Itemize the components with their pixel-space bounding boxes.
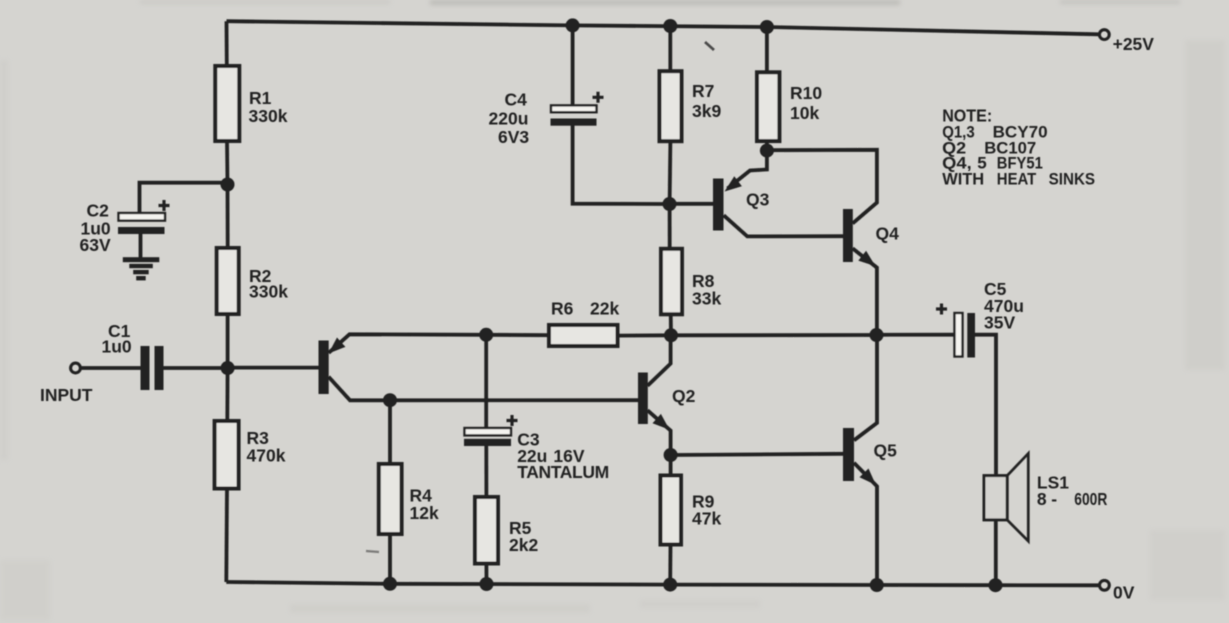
wire R2 to input node [226, 313, 230, 368]
junction node input [221, 361, 235, 375]
junction node R1/R2/C2 [221, 178, 235, 192]
wire Q2 collector [648, 335, 671, 386]
C4 plus sign [593, 92, 604, 103]
terminal 0V [1100, 580, 1110, 590]
wire Q4 collector [767, 150, 877, 224]
svg-text:C2: C2 [87, 201, 110, 221]
wire R7 bottom [668, 140, 673, 204]
capacitor C1 left plate [141, 346, 150, 390]
wire Q1 collector to Q2 base [329, 377, 638, 401]
wire output node to C5 [877, 333, 956, 337]
svg-text:1u0: 1u0 [102, 337, 132, 357]
junction node output [870, 328, 884, 342]
Q1 emitter arrow [329, 338, 346, 354]
wire node to R6 [486, 333, 550, 337]
wire node to output node [671, 333, 877, 337]
Q5 emitter arrow [860, 469, 876, 486]
capacitor C5 negative plate [967, 313, 975, 358]
wire R4 top [388, 400, 392, 465]
junction dot C4 top rail [566, 18, 580, 32]
junction dot R10 top rail [760, 20, 774, 34]
capacitor C4 positive plate [551, 105, 597, 112]
svg-text:47k: 47k [692, 509, 721, 529]
wire R5 bottom [484, 563, 488, 585]
ground [123, 257, 160, 280]
resistor R6 [549, 325, 618, 346]
C5 plus sign [936, 304, 947, 315]
wire R9 bottom [668, 544, 672, 585]
C2 plus sign [159, 200, 170, 211]
junction node R7/C4/R8/Q3 base [663, 197, 677, 211]
wire top rail +25V [227, 21, 1099, 34]
resistor R8 [661, 249, 682, 314]
junction dot R5 rail [480, 577, 494, 591]
svg-text:R7: R7 [692, 81, 714, 101]
wire Q1 base [228, 366, 319, 370]
wire Q3 collector to Q4 base [724, 215, 843, 236]
wire R1 bottom to node [225, 140, 229, 185]
svg-text:0V: 0V [1113, 583, 1135, 603]
capacitor C2 negative plate [118, 227, 165, 234]
wire R9 top [669, 455, 673, 476]
resistor R9 [661, 476, 682, 545]
svg-text:+25V: +25V [1113, 34, 1155, 54]
capacitor C3 positive plate [465, 428, 512, 435]
resistor R2 [217, 248, 239, 314]
junction node R4 top [383, 393, 397, 407]
transistor Q2 bar [638, 373, 648, 425]
wire speaker to rail [994, 519, 998, 585]
transistor Q4 bar [843, 209, 853, 262]
wire R4 bottom [388, 533, 392, 584]
terminal INPUT [71, 363, 81, 373]
capacitor C1 right plate [155, 346, 164, 390]
junction node R10 / Q3 emitter / Q4 collector [760, 144, 774, 158]
resistor R3 [215, 421, 239, 489]
junction dot R7 top rail [663, 19, 677, 33]
resistor R10 [757, 72, 779, 141]
wire C5 to speaker [975, 335, 996, 476]
svg-text:470k: 470k [247, 446, 286, 466]
svg-text:Q4: Q4 [876, 224, 900, 244]
resistor R1 [215, 66, 239, 141]
wire Q5 emitter [854, 463, 877, 585]
svg-text:33k: 33k [692, 289, 721, 309]
transistor Q5 bar [843, 428, 854, 481]
wire R8 bottom [669, 313, 673, 335]
wire R10 bottom [765, 140, 769, 151]
svg-text:3k9: 3k9 [692, 101, 721, 121]
wire R8 top [668, 204, 672, 250]
wire C2 branch [140, 183, 228, 214]
transistor Q1 bar [319, 341, 329, 395]
svg-text:TANTALUM: TANTALUM [517, 462, 609, 482]
junction dot R4 rail [383, 577, 397, 591]
svg-text:WITHHEATSINKS: WITHHEATSINKS [942, 170, 1095, 189]
Q2 emitter arrow [653, 414, 670, 430]
svg-text:R10: R10 [790, 83, 822, 103]
capacitor C3 negative plate [464, 439, 511, 446]
svg-text:R1: R1 [249, 88, 272, 108]
junction dot Q5 emitter rail [870, 578, 884, 592]
junction node C3 top [479, 328, 493, 342]
junction dot R9 rail [663, 578, 677, 592]
wire Q1 emitter to node [329, 334, 487, 353]
wire R7 top [668, 26, 672, 72]
wire C4 bottom to node [573, 126, 670, 205]
svg-text:22k: 22k [590, 299, 619, 319]
wire C4 top [571, 25, 575, 105]
svg-text:Q3: Q3 [746, 190, 770, 210]
svg-text:INPUT: INPUT [40, 385, 93, 405]
Q3 emitter arrow [725, 176, 742, 191]
svg-text:C4: C4 [505, 90, 528, 110]
svg-text:6V3: 6V3 [498, 127, 529, 147]
junction node Q2 emitter / R9 / Q5 base [664, 448, 678, 462]
svg-text:10k: 10k [790, 103, 819, 123]
speaker LS1 horn [1007, 454, 1028, 542]
wire C1 to input node [164, 366, 228, 370]
wire input node to R3 [225, 368, 229, 422]
stray mark near R7 [705, 42, 714, 50]
junction dot speaker rail [989, 578, 1003, 592]
capacitor C2 positive plate [119, 213, 166, 221]
wire R1 top [225, 21, 229, 67]
wire node to R2 [226, 185, 230, 250]
Q4 emitter arrow [858, 251, 875, 266]
wire Q2 emitter [648, 410, 671, 455]
svg-text:Q2: Q2 [672, 386, 696, 406]
svg-text:Q5: Q5 [874, 441, 898, 461]
wire R10 top [765, 27, 769, 73]
svg-text:12k: 12k [410, 503, 439, 523]
capacitor C4 negative plate [551, 119, 597, 126]
wire Q3 base [670, 202, 714, 206]
wire Q5 collector [854, 335, 877, 440]
wire Q3 emitter [728, 151, 767, 189]
svg-text:35V: 35V [984, 313, 1015, 333]
terminal +25V [1099, 30, 1109, 40]
capacitor C5 positive plate [955, 313, 963, 357]
resistor R4 [379, 464, 402, 534]
wire C2 to ground [139, 234, 143, 258]
resistor R5 [475, 497, 498, 564]
wire bottom rail 0V [226, 582, 1098, 585]
wire R6 to node [617, 333, 672, 337]
resistor R7 [660, 71, 682, 141]
stray mark near R4 [366, 551, 379, 552]
wire C3 top [484, 335, 488, 429]
junction node R6/R8/Q2 collector [664, 328, 678, 342]
wire R3 to bottom rail [224, 488, 228, 583]
svg-text:R6: R6 [551, 299, 574, 319]
wire Q4 emitter [853, 248, 877, 335]
wire Q5 base [671, 454, 843, 455]
transistor Q3 bar [713, 179, 724, 231]
svg-text:63V: 63V [80, 235, 111, 255]
svg-text:220u: 220u [489, 109, 529, 129]
speaker LS1 box [984, 476, 1007, 520]
wire input terminal to C1 [82, 366, 142, 370]
svg-text:330k: 330k [249, 282, 288, 302]
C3 plus sign [507, 415, 518, 426]
svg-text:330k: 330k [249, 106, 288, 126]
svg-text:2k2: 2k2 [509, 535, 538, 555]
wire C3 to R5 [484, 446, 488, 498]
